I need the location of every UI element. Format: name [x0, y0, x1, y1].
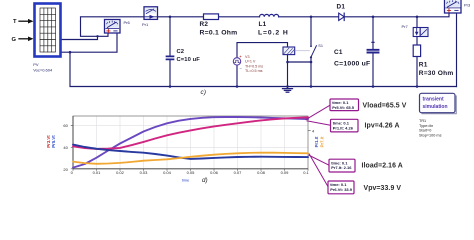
svg-text:60: 60: [63, 123, 68, 128]
svg-text:C=10 uF: C=10 uF: [177, 57, 201, 63]
svg-text:0.04: 0.04: [163, 170, 172, 175]
svg-text:L=0.2 H: L=0.2 H: [258, 30, 289, 37]
svg-text:Ipv=4.26 A: Ipv=4.26 A: [365, 123, 400, 130]
svg-text:Iload=2.16 A: Iload=2.16 A: [362, 163, 403, 170]
svg-text:TR1: TR1: [419, 119, 426, 123]
svg-text:0.05: 0.05: [187, 170, 196, 175]
svg-text:d): d): [202, 177, 208, 184]
svg-text:Pr7.It: Pr7.It: [319, 136, 324, 147]
svg-text:C=1000 uF: C=1000 uF: [334, 60, 370, 67]
svg-text:Stop=100 ms: Stop=100 ms: [419, 133, 442, 137]
svg-text:Pr7.It: 2.16: Pr7.It: 2.16: [331, 165, 352, 170]
svg-text:R=30 Ohm: R=30 Ohm: [419, 70, 454, 77]
svg-text:U=1 V: U=1 V: [245, 60, 256, 64]
svg-text:PV: PV: [33, 62, 39, 67]
svg-text:simulation: simulation: [423, 104, 448, 110]
svg-text:Pr7: Pr7: [402, 24, 409, 29]
svg-text:C1: C1: [334, 49, 343, 56]
svg-text:Type=lin: Type=lin: [419, 124, 433, 128]
svg-text:Pr6: Pr6: [124, 20, 131, 25]
svg-text:time: time: [182, 178, 190, 183]
svg-text:0.09: 0.09: [281, 170, 290, 175]
svg-text:0.03: 0.03: [140, 170, 149, 175]
svg-text:0.1: 0.1: [303, 170, 309, 175]
svg-text:R2: R2: [200, 21, 209, 28]
svg-text:transient: transient: [423, 97, 444, 103]
svg-text:V3: V3: [245, 55, 250, 59]
svg-text:20: 20: [63, 167, 68, 172]
svg-text:0.06: 0.06: [210, 170, 219, 175]
svg-text:0.08: 0.08: [257, 170, 266, 175]
svg-text:Pr6.Vt: 33.9: Pr6.Vt: 33.9: [330, 187, 353, 192]
svg-text:Pr1.It: 4.26: Pr1.It: 4.26: [333, 125, 354, 130]
svg-text:0.01: 0.01: [93, 170, 102, 175]
svg-text:Start=0: Start=0: [419, 129, 431, 133]
svg-text:Pr1.It: Pr1.It: [314, 136, 319, 147]
svg-text:S1: S1: [318, 44, 323, 48]
svg-text:Pr3: Pr3: [464, 2, 471, 7]
svg-text:Pr1: Pr1: [142, 22, 149, 27]
svg-text:R=0.1 Ohm: R=0.1 Ohm: [200, 30, 238, 37]
svg-text:T: T: [13, 19, 17, 25]
svg-text:Vpv=33.9 V: Vpv=33.9 V: [364, 185, 402, 192]
svg-text:TH=0.5 ms: TH=0.5 ms: [245, 64, 263, 68]
svg-text:Voc=0.604: Voc=0.604: [33, 68, 53, 73]
svg-text:0.07: 0.07: [234, 170, 243, 175]
svg-text:G: G: [12, 37, 17, 43]
svg-text:Pr5.Vt: Pr5.Vt: [51, 135, 56, 148]
svg-text:Pr5.Vt: 65.5: Pr5.Vt: 65.5: [332, 105, 355, 110]
svg-text:R1: R1: [419, 61, 428, 68]
svg-text:40: 40: [63, 145, 68, 150]
svg-text:TL=0.5 ms: TL=0.5 ms: [245, 69, 263, 73]
svg-text:0.02: 0.02: [116, 170, 125, 175]
svg-text:c): c): [201, 89, 207, 96]
svg-text:L1: L1: [259, 21, 267, 28]
svg-text:D1: D1: [337, 3, 346, 10]
svg-text:C2: C2: [177, 49, 185, 55]
svg-text:Vload=65.5 V: Vload=65.5 V: [363, 102, 407, 109]
